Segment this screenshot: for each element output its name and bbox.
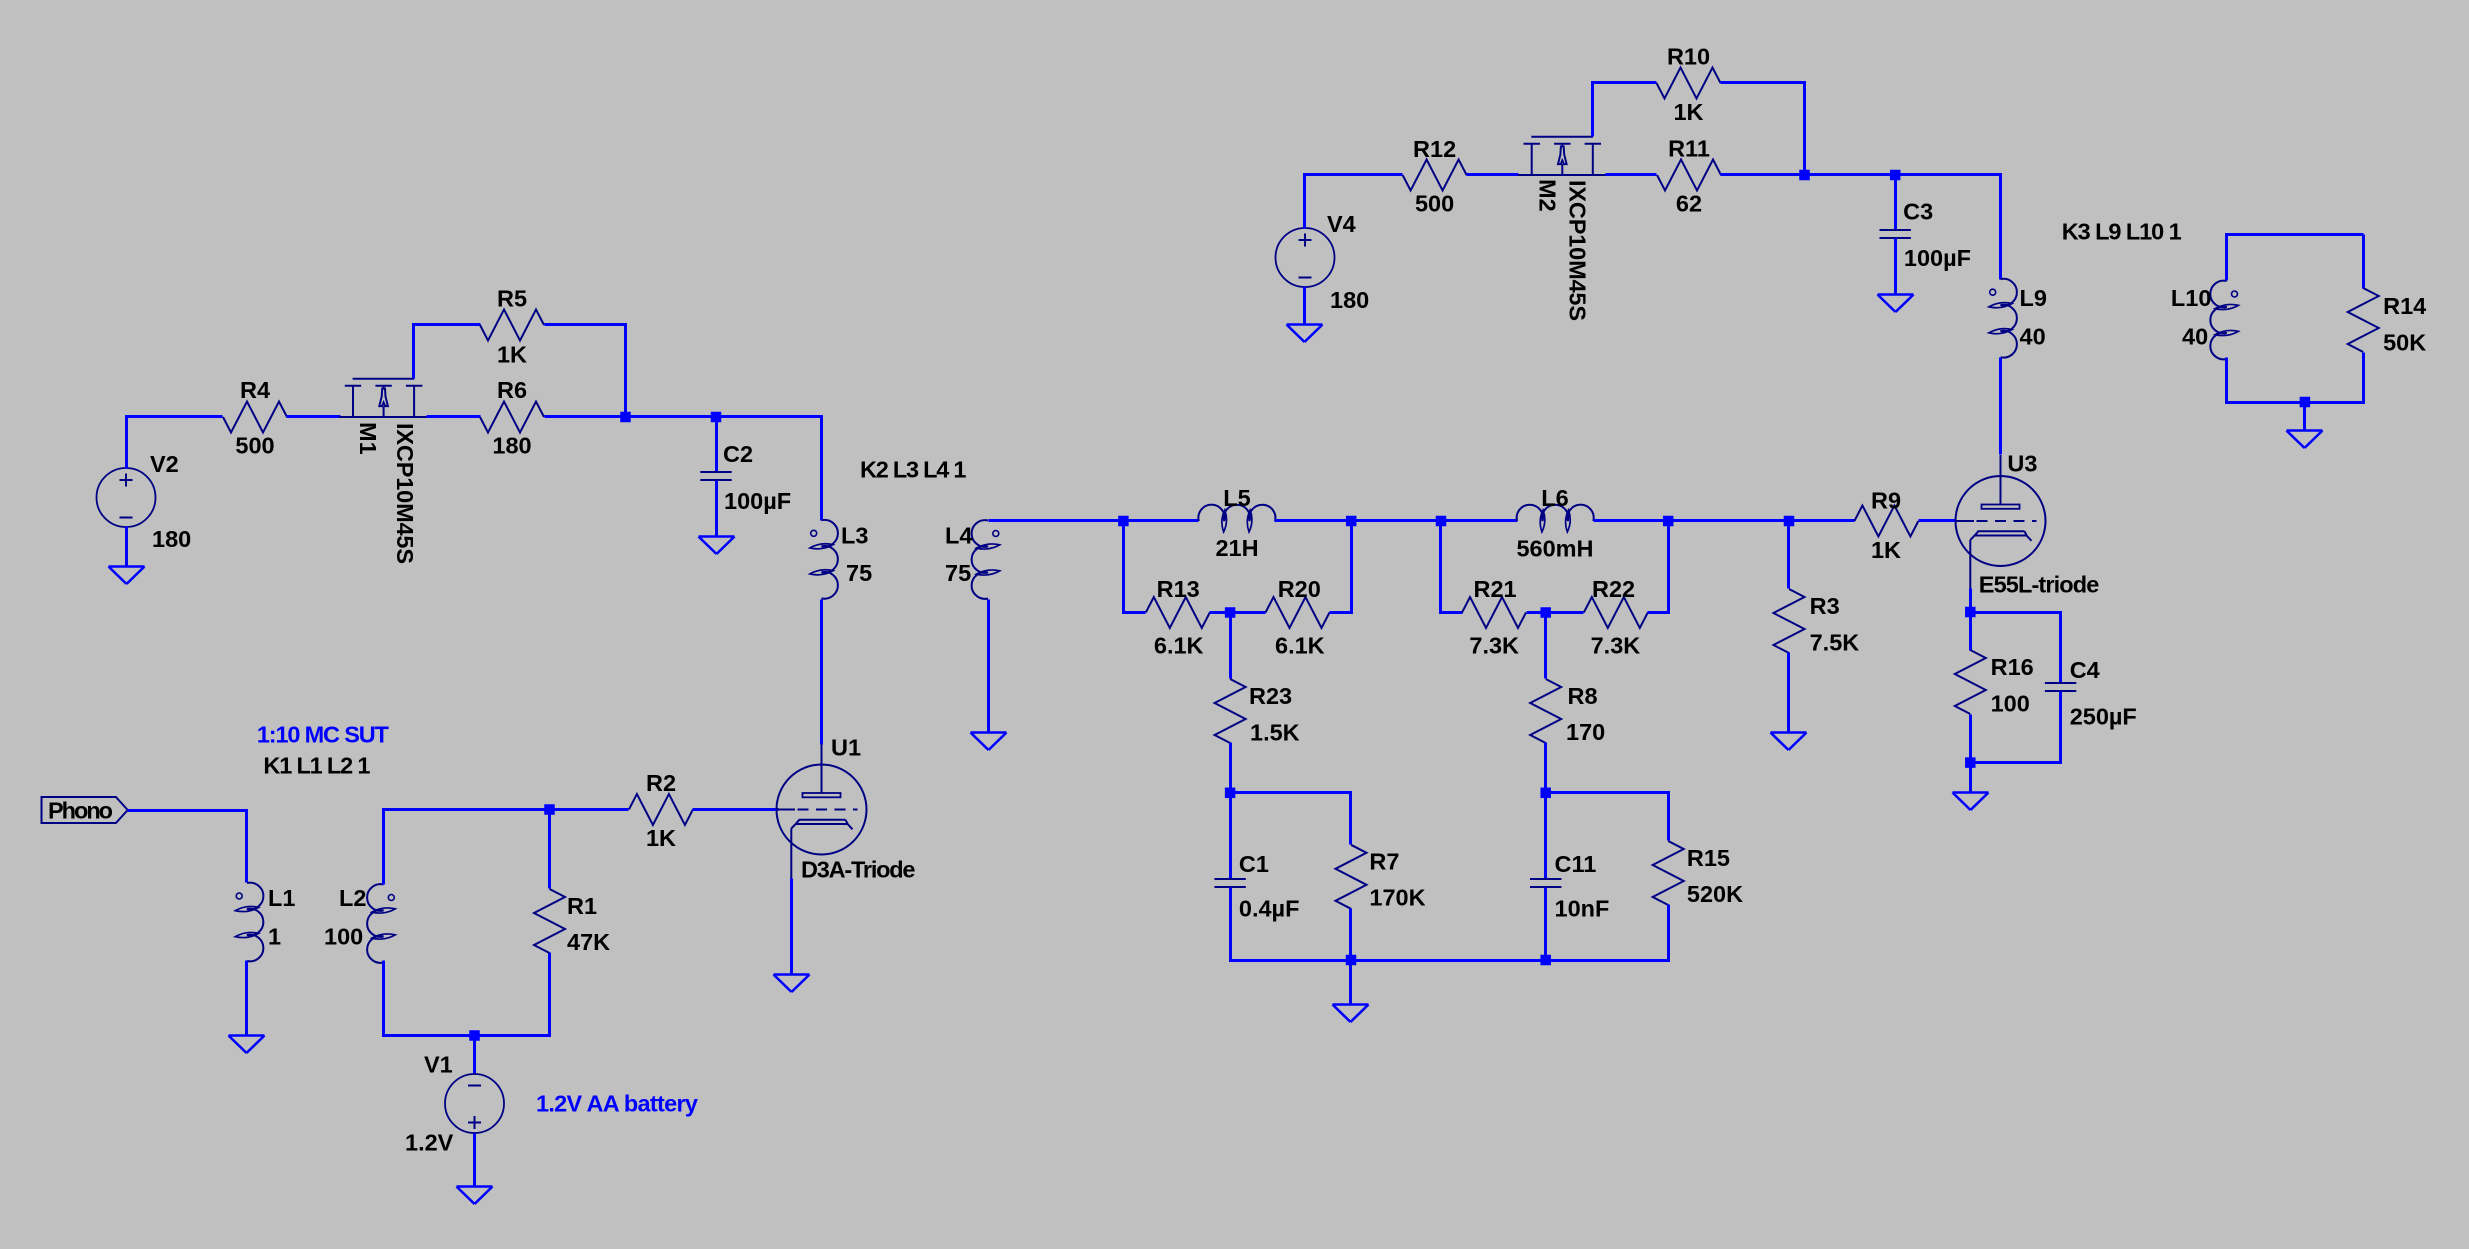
ground below R3	[1771, 733, 1807, 751]
ground below U1	[774, 975, 810, 993]
wire node Q to ground	[1969, 763, 1972, 793]
svg-text:R11: R11	[1668, 136, 1710, 162]
svg-text:C4: C4	[2070, 657, 2100, 683]
voltage source V1	[405, 1052, 504, 1156]
svg-text:6.1K: 6.1K	[1154, 633, 1204, 659]
wire node F to node G	[1352, 519, 1441, 522]
svg-text:R20: R20	[1278, 576, 1321, 602]
wire R7 to node L	[1349, 909, 1352, 961]
wire R20 to node F	[1330, 521, 1352, 613]
ground below node Q	[1953, 793, 1989, 811]
svg-text:L5: L5	[1223, 485, 1250, 511]
svg-text:K2 L3 L4 1: K2 L3 L4 1	[860, 457, 967, 483]
resistor R20	[1266, 576, 1330, 659]
wire V1 to ground	[473, 1134, 476, 1187]
ground below C2	[699, 537, 735, 555]
wire V2 top to R4	[127, 417, 223, 469]
transistor M2	[1518, 137, 1606, 321]
svg-text:100µF: 100µF	[1904, 245, 1971, 271]
wire node B to L3	[717, 417, 822, 521]
ground below node T	[2287, 431, 2323, 449]
label K3 coupling	[2062, 219, 2182, 245]
resistor R15	[1653, 841, 1743, 907]
wire L6 to node H	[1594, 519, 1669, 522]
svg-text:1.2V AA battery: 1.2V AA battery	[536, 1091, 698, 1117]
wire node P to C4	[1971, 613, 2061, 684]
wire R23 to node K	[1229, 743, 1232, 793]
svg-text:62: 62	[1676, 191, 1702, 217]
wire node S to L9	[1896, 175, 2001, 280]
node S junction	[1890, 170, 1901, 181]
svg-text:K1 L1 L2 1: K1 L1 L2 1	[263, 753, 370, 779]
resistor R8	[1530, 679, 1605, 745]
ground below L4	[971, 733, 1007, 751]
svg-text:7.3K: 7.3K	[1469, 633, 1519, 659]
svg-text:R10: R10	[1667, 44, 1710, 70]
wire rail to R14	[2362, 235, 2365, 289]
svg-text:L10: L10	[2171, 285, 2212, 311]
inductor L6	[1516, 485, 1593, 562]
wire node I down to R3	[1787, 521, 1790, 589]
svg-text:R23: R23	[1249, 683, 1292, 709]
wire C1 to bottom rail	[1231, 888, 1351, 961]
wire L2 bottom rail	[384, 953, 550, 1036]
resistor R9	[1854, 488, 1918, 564]
inductor L9	[1988, 279, 2046, 358]
node L junction	[1346, 955, 1357, 966]
resistor R7	[1336, 845, 1426, 911]
svg-text:170K: 170K	[1369, 885, 1425, 911]
wire node A to node B	[626, 415, 717, 418]
wire M2 gate to R10	[1593, 83, 1657, 137]
wire node P to R16	[1969, 613, 1972, 651]
svg-text:100: 100	[1991, 691, 2030, 717]
svg-text:R15: R15	[1687, 845, 1730, 871]
resistor R3	[1774, 589, 1860, 656]
wire R22 to node H	[1648, 521, 1669, 613]
node D junction	[469, 1030, 480, 1041]
wire node M down to R8	[1544, 613, 1547, 679]
ground below V4	[1287, 325, 1323, 343]
node G junction	[1436, 516, 1447, 527]
svg-text:K3 L9 L10 1: K3 L9 L10 1	[2062, 219, 2182, 245]
wire M1 gate to R5	[414, 325, 481, 379]
label K2 coupling	[860, 457, 967, 483]
inductor L3	[809, 520, 872, 599]
capacitor C11	[1530, 851, 1609, 922]
wire node G down to R21	[1441, 521, 1463, 613]
svg-text:R4: R4	[240, 377, 270, 403]
resistor R13	[1146, 576, 1210, 659]
node B junction	[711, 412, 722, 423]
svg-text:L4: L4	[945, 523, 972, 549]
svg-text:L6: L6	[1541, 485, 1568, 511]
capacitor C2	[700, 441, 791, 514]
svg-text:1K: 1K	[646, 825, 676, 851]
svg-text:180: 180	[152, 526, 191, 552]
comment 1:10 MC SUT	[257, 722, 390, 748]
port Phono	[42, 797, 128, 824]
ground below node L	[1333, 1005, 1369, 1023]
resistor R2	[629, 770, 693, 851]
wire V2 bottom to ground	[125, 527, 128, 567]
resistor R14	[2348, 288, 2427, 356]
svg-text:R6: R6	[497, 377, 527, 403]
svg-text:R16: R16	[1991, 654, 2034, 680]
svg-text:1.5K: 1.5K	[1250, 720, 1300, 746]
node Q junction	[1965, 757, 1976, 768]
wire L4 top rail to L5	[989, 519, 1124, 522]
svg-text:R1: R1	[567, 893, 597, 919]
wire U1 cathode to ground	[790, 879, 793, 975]
ground below C3	[1878, 295, 1914, 313]
svg-text:D3A-Triode: D3A-Triode	[801, 857, 916, 883]
wire node S to C3	[1894, 175, 1897, 231]
resistor R4	[223, 377, 287, 459]
wire node B to C2	[715, 417, 718, 473]
svg-text:10nF: 10nF	[1555, 896, 1610, 922]
wire C3 to ground	[1894, 239, 1897, 295]
wire L10 top rail	[2227, 235, 2364, 281]
inductor L10	[2171, 281, 2239, 360]
wire node T to ground	[2303, 403, 2306, 431]
svg-text:500: 500	[1415, 191, 1454, 217]
svg-text:1K: 1K	[1673, 99, 1703, 125]
svg-text:R22: R22	[1592, 576, 1635, 602]
wire R15 to bottom rail	[1546, 905, 1669, 961]
svg-text:R3: R3	[1810, 593, 1840, 619]
svg-text:6.1K: 6.1K	[1275, 633, 1325, 659]
wire V4 top to R12	[1305, 175, 1403, 229]
svg-text:C2: C2	[723, 441, 753, 467]
svg-text:520K: 520K	[1687, 881, 1743, 907]
svg-text:1:10 MC SUT: 1:10 MC SUT	[257, 722, 390, 748]
node O junction	[1540, 955, 1551, 966]
svg-text:1: 1	[268, 924, 281, 950]
wire node H to node I	[1669, 519, 1789, 522]
resistor R1	[534, 889, 610, 955]
wire node G to L6	[1441, 519, 1518, 522]
svg-text:V4: V4	[1327, 211, 1356, 237]
resistor R12	[1403, 136, 1467, 217]
inductor L1	[235, 883, 295, 962]
svg-text:100: 100	[324, 924, 363, 950]
svg-text:U3: U3	[2007, 451, 2037, 477]
wire node I to R9	[1789, 519, 1855, 522]
svg-text:75: 75	[846, 560, 872, 586]
voltage source V4	[1276, 211, 1370, 313]
svg-text:180: 180	[492, 433, 531, 459]
node C junction	[544, 804, 555, 815]
wire node E to L5	[1124, 519, 1199, 522]
triode U3	[1956, 451, 2100, 598]
resistor R23	[1215, 679, 1300, 746]
wire R6 to node A	[545, 415, 626, 418]
resistor R22	[1584, 576, 1648, 659]
wire R9 to U3 grid	[1919, 519, 1957, 522]
resistor R5	[480, 286, 544, 368]
svg-text:R2: R2	[646, 770, 676, 796]
svg-text:40: 40	[2182, 324, 2208, 350]
node N junction	[1540, 788, 1551, 799]
svg-text:0.4µF: 0.4µF	[1239, 896, 1300, 922]
wire C4 to node Q	[1971, 692, 2061, 763]
node K junction	[1225, 788, 1236, 799]
capacitor C4	[2045, 657, 2137, 730]
inductor L5	[1198, 485, 1275, 561]
inductor L4	[945, 520, 1000, 599]
svg-text:21H: 21H	[1215, 535, 1258, 561]
wire L4 to ground	[987, 600, 990, 733]
wire R10 to node R	[1721, 83, 1805, 175]
wire L2 top to node C	[384, 810, 550, 885]
wire L3 to U1 plate	[820, 600, 823, 745]
node F junction	[1346, 516, 1357, 527]
wire node J down to R23	[1229, 613, 1232, 679]
svg-text:IXCP10M45S: IXCP10M45S	[392, 423, 418, 564]
svg-text:1K: 1K	[1871, 537, 1901, 563]
node R junction	[1799, 170, 1810, 181]
wire R8 to node N	[1544, 743, 1547, 793]
wire L10 to bottom rail	[2227, 358, 2305, 403]
wire R1 top to node C	[548, 810, 551, 889]
svg-text:40: 40	[2020, 324, 2046, 350]
ground below L1	[229, 1036, 265, 1054]
svg-text:L1: L1	[268, 885, 295, 911]
wire bottom rail L to O	[1351, 959, 1546, 962]
svg-text:E55L-triode: E55L-triode	[1979, 572, 2100, 598]
wire R4 to M1	[287, 415, 341, 418]
node P junction	[1965, 607, 1976, 618]
wire node J to R20	[1231, 611, 1266, 614]
node H junction	[1663, 516, 1674, 527]
svg-text:100µF: 100µF	[724, 488, 791, 514]
resistor R21	[1462, 576, 1526, 659]
node A junction	[620, 412, 631, 423]
voltage source V2	[97, 451, 192, 552]
wire R12 to M2	[1467, 173, 1519, 176]
svg-text:IXCP10M45S: IXCP10M45S	[1565, 180, 1591, 321]
svg-text:Phono: Phono	[48, 798, 113, 824]
wire R2 to U1 grid	[693, 808, 779, 811]
capacitor C3	[1880, 199, 1972, 272]
wire R14 to bottom rail	[2305, 353, 2364, 403]
svg-text:47K: 47K	[567, 929, 610, 955]
svg-text:R5: R5	[497, 286, 527, 312]
svg-text:250µF: 250µF	[2070, 704, 2137, 730]
svg-text:50K: 50K	[2383, 330, 2426, 356]
wire node K down to C1	[1229, 793, 1232, 880]
svg-text:V1: V1	[424, 1052, 453, 1078]
wire L5 to node F	[1275, 519, 1352, 522]
wire M1 source to R6	[427, 415, 481, 418]
wire node N to R15 top	[1546, 793, 1669, 841]
svg-text:C3: C3	[1903, 199, 1933, 225]
wire C11 to node O	[1544, 888, 1547, 961]
wire U3 cathode to node P	[1969, 589, 1972, 613]
wire R3 to ground	[1787, 653, 1790, 733]
wire node E down to R13	[1124, 521, 1146, 613]
svg-text:L9: L9	[2020, 285, 2047, 311]
svg-text:M2: M2	[1535, 179, 1561, 212]
svg-text:R9: R9	[1871, 488, 1901, 514]
node J junction	[1225, 607, 1236, 618]
wire R11 to node R	[1721, 173, 1805, 176]
inductor L2	[324, 884, 396, 963]
svg-text:L2: L2	[339, 885, 366, 911]
svg-text:R12: R12	[1413, 136, 1456, 162]
wire node D to V1	[473, 1036, 476, 1074]
wire L1 to ground	[245, 961, 248, 1036]
wire R5 to node A	[545, 325, 626, 417]
wire node M to R22	[1546, 611, 1584, 614]
svg-text:1K: 1K	[497, 342, 527, 368]
wire node R to node S	[1805, 173, 1896, 176]
svg-text:R21: R21	[1474, 576, 1517, 602]
svg-text:1.2V: 1.2V	[405, 1130, 454, 1156]
svg-text:500: 500	[235, 433, 274, 459]
wire R13 to node J	[1210, 611, 1231, 614]
svg-text:C1: C1	[1239, 851, 1269, 877]
wire node L to ground	[1349, 961, 1352, 1005]
resistor R10	[1657, 44, 1721, 126]
wire L9 to U3 plate	[1999, 358, 2002, 455]
wire V4 bottom to ground	[1303, 287, 1306, 325]
wire Phono to L1	[128, 811, 247, 883]
wire C2 to ground	[715, 481, 718, 537]
label K1 coupling	[263, 753, 370, 779]
wire node N down to C11	[1544, 793, 1547, 880]
resistor R11	[1657, 136, 1721, 217]
resistor R16	[1955, 650, 2034, 717]
wire node K to R7 top	[1231, 793, 1351, 845]
transistor M1	[339, 379, 427, 564]
wire R16 to node Q	[1969, 715, 1972, 763]
svg-text:7.5K: 7.5K	[1810, 630, 1860, 656]
resistor R6	[480, 377, 544, 459]
wire node C to R2	[550, 808, 629, 811]
svg-text:R7: R7	[1369, 849, 1399, 875]
svg-text:U1: U1	[831, 735, 861, 761]
svg-text:C11: C11	[1555, 851, 1597, 877]
svg-text:170: 170	[1566, 719, 1605, 745]
svg-text:L3: L3	[841, 523, 868, 549]
triode U1	[777, 735, 916, 883]
ground below V2	[109, 567, 145, 585]
svg-text:M1: M1	[355, 422, 381, 455]
svg-text:V2: V2	[150, 451, 179, 477]
svg-text:R14: R14	[2383, 293, 2426, 319]
node T junction	[2300, 397, 2311, 408]
ground below V1	[457, 1187, 493, 1205]
svg-text:7.3K: 7.3K	[1591, 633, 1641, 659]
svg-text:R8: R8	[1568, 683, 1598, 709]
svg-text:560mH: 560mH	[1516, 536, 1593, 562]
svg-text:75: 75	[945, 560, 971, 586]
svg-text:R13: R13	[1157, 576, 1200, 602]
node I junction	[1784, 516, 1795, 527]
comment 1.2V AA battery	[536, 1091, 698, 1117]
wire M2 source to R11	[1606, 173, 1657, 176]
svg-text:180: 180	[1330, 287, 1369, 313]
node E junction	[1118, 516, 1129, 527]
capacitor C1	[1214, 851, 1299, 922]
wire R21 to node M	[1527, 611, 1546, 614]
node M junction	[1540, 607, 1551, 618]
